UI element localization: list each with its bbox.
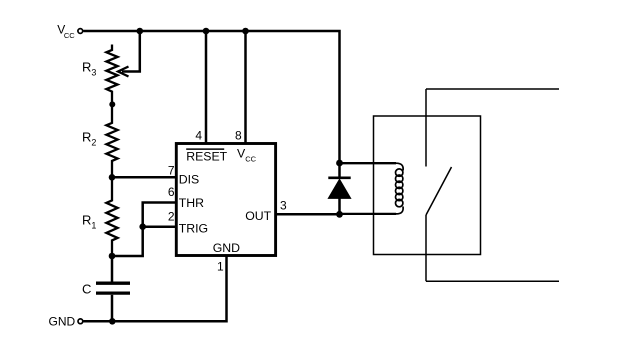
wire DIS to pin7 bbox=[112, 176, 176, 179]
wire top rail from VCC terminal to diode branch bbox=[83, 31, 339, 163]
capacitor C bbox=[96, 282, 130, 285]
wire diode top to relay coil bbox=[340, 162, 397, 164]
wire capacitor to GND rail bbox=[111, 295, 114, 322]
op-amp U1 555 IC body bbox=[176, 144, 275, 256]
wiper arrowhead bbox=[118, 67, 129, 77]
wire THR to pin6 and down to TRIG/bottom bbox=[112, 203, 176, 257]
svg-text:7: 7 bbox=[168, 164, 175, 178]
relay coil L1 bbox=[396, 163, 403, 170]
wire GND rail bbox=[84, 256, 227, 322]
pin 4 wire bbox=[205, 31, 208, 144]
svg-text:8: 8 bbox=[235, 129, 242, 143]
junction dot R1-C bbox=[109, 253, 116, 260]
svg-text:1: 1 bbox=[217, 260, 224, 274]
wire switch bottom external bbox=[426, 280, 559, 282]
wire R1 bottom to capacitor bbox=[111, 256, 114, 282]
pin 8 wire bbox=[244, 31, 247, 144]
resistor R2 bbox=[106, 104, 117, 177]
node VCC terminal bbox=[78, 29, 83, 34]
svg-text:DIS: DIS bbox=[179, 172, 200, 186]
resistor R1 bbox=[106, 177, 117, 256]
svg-text:RESET: RESET bbox=[186, 149, 227, 163]
junction dot diode top bbox=[336, 160, 343, 167]
svg-text:GND: GND bbox=[49, 314, 76, 328]
svg-text:OUT: OUT bbox=[245, 209, 271, 223]
junction dot rail-pin4 bbox=[203, 28, 210, 35]
junction dot R2-R1-DIS bbox=[109, 174, 116, 181]
junction dot rail-wiper bbox=[137, 28, 144, 35]
svg-text:6: 6 bbox=[168, 185, 175, 199]
switch S1 bottom contact bbox=[425, 215, 427, 281]
svg-text:GND: GND bbox=[213, 241, 240, 255]
resistor R3 (rheostat) bbox=[106, 45, 117, 105]
svg-text:THR: THR bbox=[179, 196, 204, 210]
wire switch top external bbox=[426, 88, 559, 90]
wire OUT pin3 to diode bbox=[276, 213, 340, 216]
switch S1 blade bbox=[426, 167, 452, 215]
node GND terminal bbox=[78, 319, 83, 324]
junction dot diode bottom / OUT bbox=[336, 211, 343, 218]
svg-text:2: 2 bbox=[168, 209, 175, 223]
junction dot rail-pin8 bbox=[242, 28, 249, 35]
wire R3 wiper from rail bbox=[122, 31, 140, 72]
svg-text:3: 3 bbox=[280, 199, 287, 213]
relay K1 box bbox=[374, 116, 481, 255]
svg-text:TRIG: TRIG bbox=[179, 222, 208, 236]
switch S1 top contact bbox=[425, 89, 427, 167]
junction dot GND-C bbox=[109, 318, 116, 325]
svg-text:C: C bbox=[82, 281, 91, 296]
svg-text:4: 4 bbox=[195, 129, 202, 143]
junction dot TRIG bbox=[139, 223, 146, 230]
junction dot R3-R2 bbox=[109, 101, 115, 107]
wire diode bottom to relay coil bbox=[340, 213, 397, 215]
wire TRIG to pin2 bbox=[143, 225, 176, 228]
diode D1 flyback bbox=[328, 176, 350, 179]
